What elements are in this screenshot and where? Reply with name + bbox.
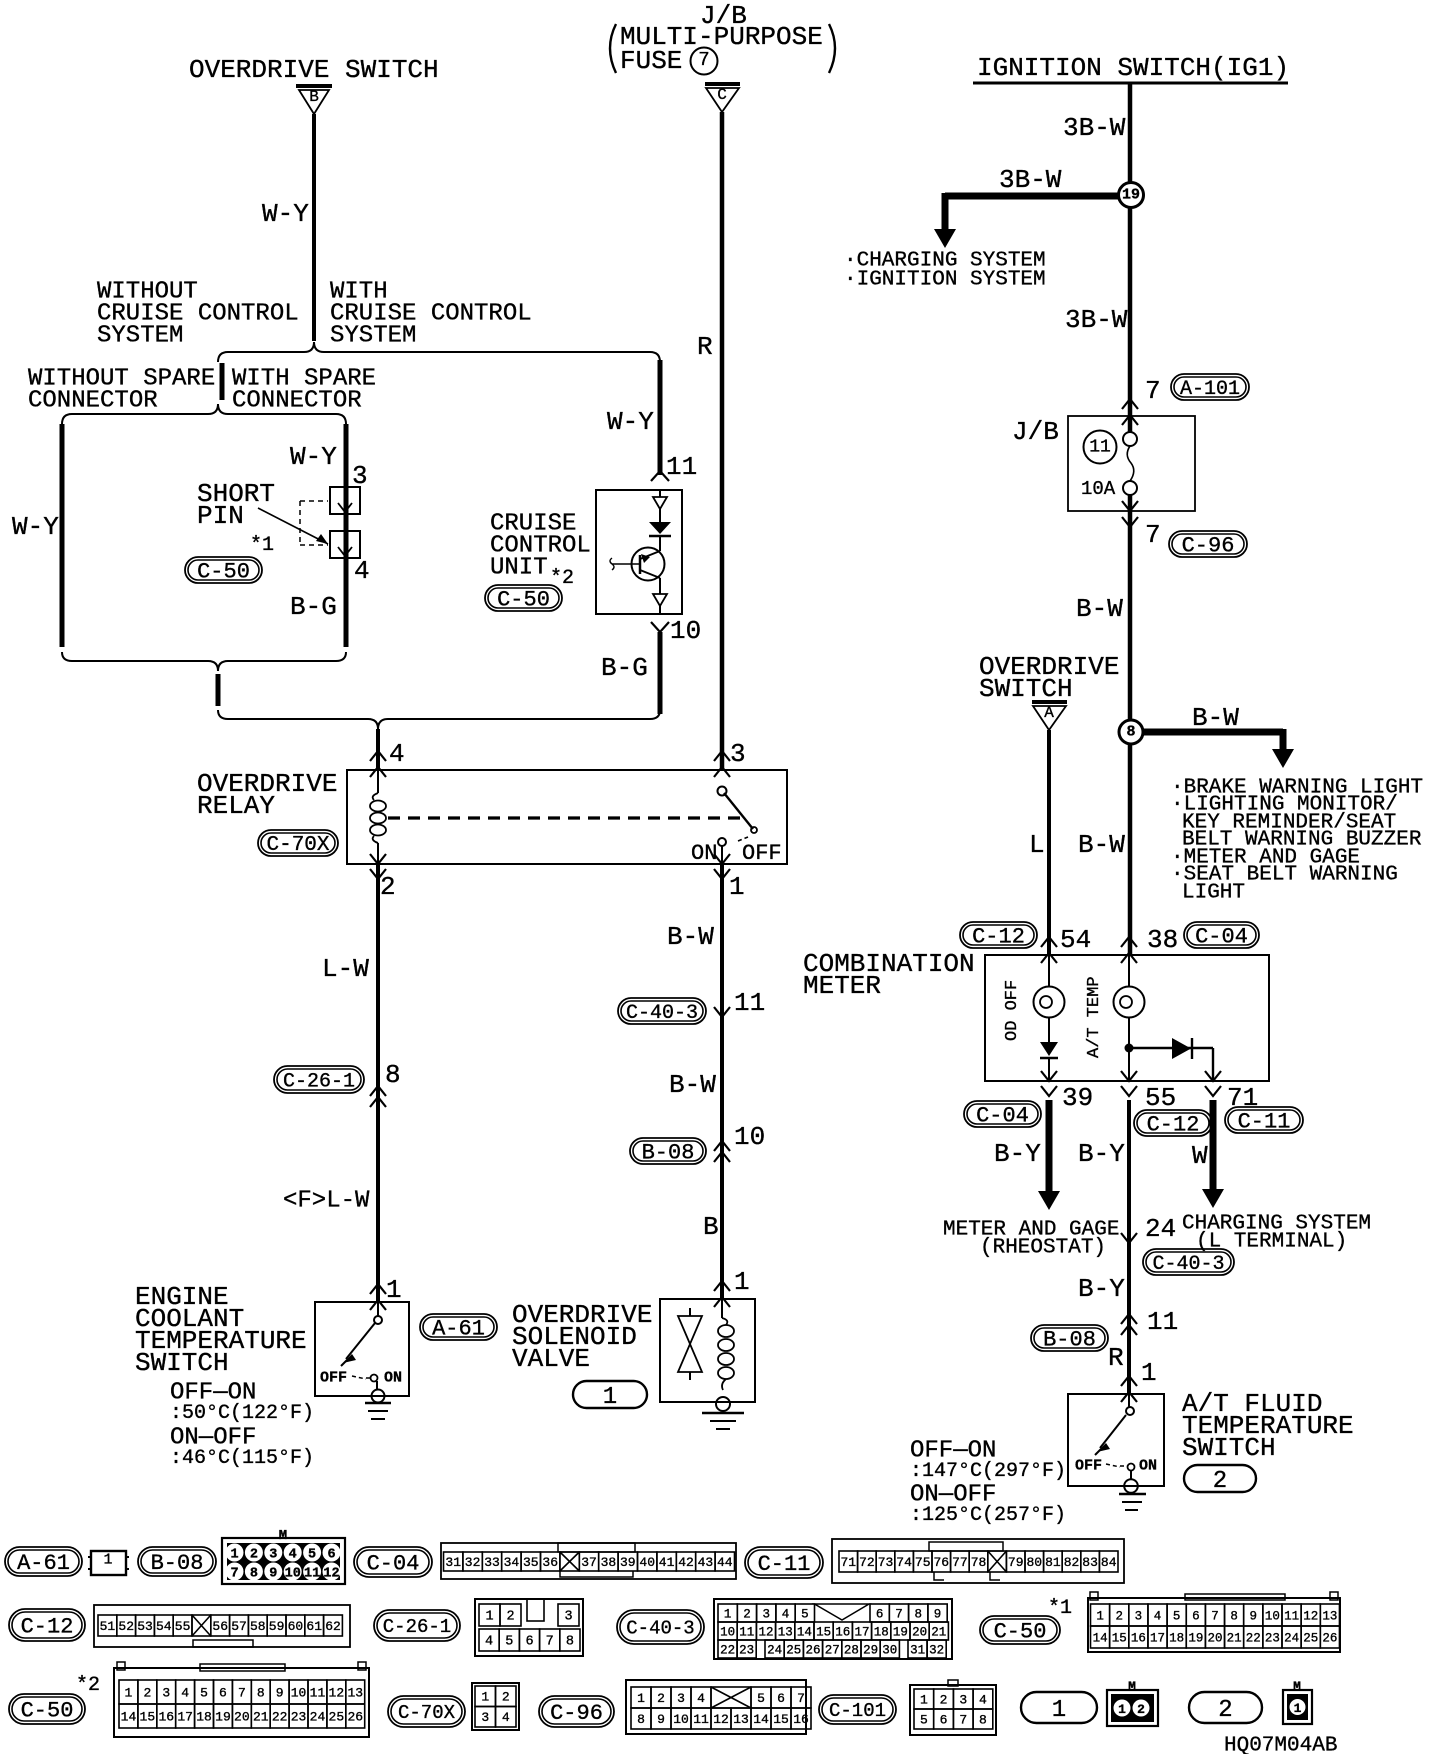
svg-text:SWITCH: SWITCH bbox=[979, 674, 1073, 704]
A/T switch dashed arc bbox=[1106, 1464, 1120, 1467]
svg-text:OVERDRIVE SWITCH: OVERDRIVE SWITCH bbox=[189, 55, 439, 85]
coolant switch ON contact bbox=[371, 1375, 378, 1382]
relay coil bbox=[377, 770, 379, 793]
svg-text:W: W bbox=[1192, 1141, 1208, 1171]
connector label A-61 capsule (table) bbox=[5, 1547, 82, 1576]
svg-text:1: 1 bbox=[729, 872, 745, 902]
svg-text:1: 1 bbox=[724, 1607, 732, 1621]
svg-text::125°C(257°F): :125°C(257°F) bbox=[910, 1504, 1066, 1527]
wire W-Y from overdrive switch connector B bbox=[312, 114, 316, 341]
svg-text:2: 2 bbox=[1218, 1697, 1232, 1724]
cruise unit internal wire top bbox=[659, 490, 661, 497]
coolant switch wire to ground bbox=[376, 1381, 378, 1390]
svg-text:33: 33 bbox=[484, 1555, 500, 1570]
svg-text:8: 8 bbox=[250, 1566, 258, 1581]
connector pinout component 2 (1 pin) bbox=[1283, 1690, 1312, 1724]
svg-text:20: 20 bbox=[234, 1710, 250, 1725]
svg-text:4: 4 bbox=[485, 1635, 493, 1650]
dashed outline of short pin bbox=[300, 500, 328, 502]
short pin terminal box pin 3 bbox=[330, 487, 360, 514]
terminal chevrons at relay pin 1 bbox=[714, 854, 730, 864]
svg-text:8: 8 bbox=[257, 1686, 265, 1701]
svg-text:OD OFF: OD OFF bbox=[1003, 980, 1022, 1041]
svg-text:1: 1 bbox=[481, 1690, 489, 1705]
svg-text:J/B: J/B bbox=[1012, 417, 1059, 447]
connector label C-11 capsule (pin 71) bbox=[1225, 1107, 1303, 1133]
svg-text:2: 2 bbox=[380, 872, 396, 902]
svg-text:B: B bbox=[309, 88, 319, 106]
svg-text:14: 14 bbox=[753, 1712, 769, 1727]
svg-text:74: 74 bbox=[896, 1555, 912, 1570]
svg-text:C-70X: C-70X bbox=[398, 1702, 456, 1724]
svg-text:1: 1 bbox=[125, 1686, 133, 1701]
connector label A-101 capsule bbox=[1171, 374, 1249, 400]
svg-text:32: 32 bbox=[929, 1643, 944, 1657]
connector pinout A-61 (1 pin) bbox=[91, 1551, 126, 1575]
connector pinout C-70X (4 pin) bbox=[472, 1683, 519, 1730]
svg-text:36: 36 bbox=[542, 1555, 558, 1570]
svg-text:1: 1 bbox=[1052, 1697, 1066, 1724]
terminal symbol at cruise pin 11 bbox=[651, 471, 669, 481]
svg-text:3B-W: 3B-W bbox=[1065, 305, 1128, 335]
svg-text:SWITCH: SWITCH bbox=[1182, 1433, 1276, 1463]
svg-text:B: B bbox=[703, 1212, 719, 1242]
svg-text:24: 24 bbox=[767, 1643, 782, 1657]
connector B triangle (overdrive switch) bbox=[296, 84, 332, 88]
svg-text:72: 72 bbox=[859, 1555, 875, 1570]
svg-text:<F>L-W: <F>L-W bbox=[283, 1188, 370, 1215]
svg-text:L: L bbox=[1029, 830, 1045, 860]
svg-text:C-04: C-04 bbox=[976, 1104, 1029, 1129]
svg-text:11: 11 bbox=[734, 988, 765, 1018]
svg-text:7: 7 bbox=[1145, 376, 1161, 406]
svg-text:37: 37 bbox=[581, 1555, 597, 1570]
svg-text:12: 12 bbox=[323, 1566, 339, 1581]
svg-text:2: 2 bbox=[1115, 1609, 1123, 1623]
svg-text:16: 16 bbox=[793, 1712, 809, 1727]
svg-text:2: 2 bbox=[657, 1691, 665, 1706]
connector label C-96 capsule (table) bbox=[539, 1696, 614, 1727]
wire L from overdrive switch connector A bbox=[1047, 730, 1051, 955]
connector pinout C-12 (pins 51-62) bbox=[94, 1605, 350, 1647]
connector pinout C-50 *2 (26 pin) bbox=[114, 1668, 369, 1737]
svg-text:3B-W: 3B-W bbox=[999, 165, 1062, 195]
svg-text::147°C(297°F): :147°C(297°F) bbox=[910, 1460, 1066, 1483]
brace joining cruise-control branches to relay pin 4 bbox=[218, 710, 660, 729]
wire down to meter pin 71 bbox=[1212, 1048, 1214, 1081]
svg-text:B-08: B-08 bbox=[642, 1141, 695, 1166]
overdrive solenoid valve box bbox=[660, 1299, 755, 1402]
branch wire 3B-W to charging/ignition system bbox=[945, 193, 1119, 200]
short pin terminal box pin 4 bbox=[330, 531, 360, 558]
svg-text::50°C(122°F): :50°C(122°F) bbox=[170, 1402, 314, 1425]
svg-text:C-70X: C-70X bbox=[266, 834, 329, 857]
connector pinout C-96 (16 pin) bbox=[626, 1680, 806, 1734]
svg-text:75: 75 bbox=[915, 1555, 931, 1570]
relay dashed actuation line bbox=[388, 816, 748, 819]
svg-text:54: 54 bbox=[156, 1619, 172, 1634]
svg-text:54: 54 bbox=[1060, 925, 1091, 955]
svg-text:34: 34 bbox=[504, 1555, 520, 1570]
svg-text:4: 4 bbox=[389, 739, 405, 769]
svg-text:RELAY: RELAY bbox=[197, 791, 275, 821]
svg-text:B-08: B-08 bbox=[1043, 1328, 1096, 1353]
svg-text:8: 8 bbox=[1126, 723, 1135, 740]
diode symbol (open triangle) top inside cruise unit bbox=[653, 497, 667, 509]
svg-text:·IGNITION SYSTEM: ·IGNITION SYSTEM bbox=[844, 268, 1046, 291]
svg-text:7: 7 bbox=[698, 49, 709, 71]
svg-text:4: 4 bbox=[1154, 1609, 1162, 1623]
svg-text:77: 77 bbox=[952, 1555, 968, 1570]
terminal symbol at cruise pin 10 bbox=[651, 622, 669, 632]
A/T switch wire to ground bbox=[1130, 1470, 1132, 1480]
svg-text:6: 6 bbox=[940, 1713, 948, 1728]
svg-text:43: 43 bbox=[698, 1555, 714, 1570]
svg-text:78: 78 bbox=[971, 1555, 987, 1570]
svg-text:55: 55 bbox=[1145, 1083, 1176, 1113]
svg-text:7: 7 bbox=[546, 1635, 554, 1650]
svg-text:1: 1 bbox=[1096, 1609, 1104, 1623]
svg-text:5: 5 bbox=[757, 1691, 765, 1706]
svg-text:4: 4 bbox=[354, 556, 370, 586]
transistor Q inside cruise control unit bbox=[632, 548, 665, 581]
svg-text:7: 7 bbox=[797, 1691, 805, 1706]
svg-text:7: 7 bbox=[1145, 520, 1161, 550]
node 8 (splice) bbox=[1119, 720, 1143, 744]
svg-text:3: 3 bbox=[730, 739, 746, 769]
svg-text:8: 8 bbox=[566, 1635, 574, 1650]
svg-text:SYSTEM: SYSTEM bbox=[97, 323, 183, 350]
svg-text:A/T TEMP: A/T TEMP bbox=[1085, 976, 1104, 1058]
svg-text:22: 22 bbox=[272, 1710, 288, 1725]
svg-text:3B-W: 3B-W bbox=[1063, 113, 1126, 143]
connector label C-101 capsule (table) bbox=[819, 1695, 896, 1724]
wire from junction to diode bbox=[1129, 1047, 1213, 1049]
svg-text:6: 6 bbox=[777, 1691, 785, 1706]
ground symbol (engine coolant temperature switch) bbox=[372, 1390, 385, 1403]
svg-text:B-W: B-W bbox=[1078, 830, 1125, 860]
svg-text:2: 2 bbox=[143, 1686, 151, 1701]
svg-text:C-26-1: C-26-1 bbox=[383, 1616, 451, 1638]
svg-text:3: 3 bbox=[269, 1547, 277, 1562]
svg-text:C-26-1: C-26-1 bbox=[283, 1070, 355, 1093]
svg-text:6: 6 bbox=[219, 1686, 227, 1701]
svg-text:4: 4 bbox=[181, 1686, 189, 1701]
svg-text:SYSTEM: SYSTEM bbox=[330, 323, 416, 350]
svg-text:38: 38 bbox=[601, 1555, 617, 1570]
svg-text:C-11: C-11 bbox=[1238, 1110, 1291, 1135]
wire W-Y right leg (with spare connector) bbox=[344, 424, 349, 647]
cruise unit internal wire bottom bbox=[659, 578, 661, 594]
svg-text:A-61: A-61 bbox=[17, 1551, 70, 1576]
svg-text:11: 11 bbox=[1147, 1307, 1178, 1337]
ground symbol (A/T fluid temperature switch) bbox=[1124, 1479, 1138, 1493]
svg-text:8: 8 bbox=[979, 1713, 987, 1728]
svg-text:62: 62 bbox=[325, 1619, 341, 1634]
wire W-Y to cruise control unit bbox=[658, 360, 663, 475]
connector label C-12 capsule (pin 54) bbox=[960, 922, 1037, 948]
svg-text:59: 59 bbox=[269, 1619, 285, 1634]
fuse element in J/B bbox=[1129, 416, 1131, 432]
svg-text:OFF: OFF bbox=[1075, 1457, 1102, 1474]
svg-text:18: 18 bbox=[874, 1625, 889, 1639]
svg-text:C-40-3: C-40-3 bbox=[1152, 1253, 1224, 1276]
connector pinout C-11 (pins 71-84) bbox=[832, 1539, 1124, 1583]
terminal chevrons at coolant switch pin 1 bbox=[370, 1284, 386, 1294]
component oval label 2 (table) bbox=[1189, 1692, 1262, 1723]
A/T TEMP indicator lamp bbox=[1128, 955, 1130, 987]
svg-text:26: 26 bbox=[347, 1710, 363, 1725]
brace joining spare-connector branches bbox=[62, 652, 346, 671]
connector label C-70X capsule (table) bbox=[388, 1696, 465, 1727]
svg-text:8: 8 bbox=[1230, 1609, 1238, 1623]
svg-text:B-Y: B-Y bbox=[1078, 1139, 1125, 1169]
svg-text:1: 1 bbox=[734, 1267, 750, 1297]
svg-text:25: 25 bbox=[1303, 1631, 1318, 1645]
connector label C-04 capsule (table) bbox=[354, 1547, 432, 1577]
connector label C-26-1 capsule (table) bbox=[374, 1610, 460, 1641]
svg-text:24: 24 bbox=[310, 1710, 326, 1725]
inline connector chevrons B-08 bbox=[714, 1141, 730, 1151]
connector label C-40-3 capsule bbox=[618, 998, 706, 1024]
svg-text:4: 4 bbox=[697, 1691, 705, 1706]
component oval label 2 (A/T switch) bbox=[1184, 1465, 1256, 1492]
connector pinout C-26-1 (8 pin) bbox=[475, 1599, 583, 1656]
terminal chevrons at J/B input bbox=[1122, 399, 1138, 409]
A/T switch ON contact bbox=[1128, 1464, 1135, 1471]
svg-text:9: 9 bbox=[934, 1607, 942, 1621]
svg-text:60: 60 bbox=[288, 1619, 304, 1634]
svg-text:2: 2 bbox=[940, 1693, 948, 1708]
svg-text:*1: *1 bbox=[250, 534, 274, 557]
svg-text:B-G: B-G bbox=[290, 592, 337, 622]
svg-text:9: 9 bbox=[276, 1686, 284, 1701]
svg-text:ON: ON bbox=[384, 1369, 402, 1386]
svg-text:4: 4 bbox=[289, 1547, 297, 1562]
svg-text:21: 21 bbox=[1227, 1631, 1242, 1645]
svg-text:3: 3 bbox=[1135, 1609, 1143, 1623]
solenoid valve symbol (bowtie) bbox=[689, 1308, 691, 1316]
fuse number 7 circle bbox=[691, 48, 718, 75]
wire R from J/B fuse connector C bbox=[720, 112, 725, 770]
connector label C-04 capsule (pin 38) bbox=[1184, 922, 1259, 948]
svg-text:44: 44 bbox=[717, 1555, 733, 1570]
wire W-Y left leg (without spare connector) bbox=[60, 424, 65, 647]
svg-text:55: 55 bbox=[175, 1619, 191, 1634]
svg-text:11: 11 bbox=[739, 1625, 754, 1639]
svg-text:R: R bbox=[697, 332, 713, 362]
svg-text:METER: METER bbox=[803, 971, 881, 1001]
svg-text:11: 11 bbox=[1089, 437, 1111, 457]
wire from brace to relay pin 4 bbox=[376, 729, 380, 770]
svg-text:4: 4 bbox=[502, 1710, 510, 1725]
svg-text:11: 11 bbox=[304, 1566, 320, 1581]
svg-text:25: 25 bbox=[329, 1710, 345, 1725]
fuse number 11 circle (J/B) bbox=[1084, 431, 1117, 464]
svg-text:HQ07M04AB: HQ07M04AB bbox=[1224, 1734, 1337, 1754]
svg-text:19: 19 bbox=[215, 1710, 231, 1725]
svg-text:81: 81 bbox=[1045, 1555, 1061, 1570]
connector pinout B-08 (12 pin) bbox=[222, 1538, 345, 1584]
svg-text:13: 13 bbox=[778, 1625, 793, 1639]
connector label C-26-1 capsule bbox=[274, 1066, 364, 1093]
svg-text:19: 19 bbox=[1122, 186, 1140, 203]
svg-text:26: 26 bbox=[805, 1643, 820, 1657]
svg-text:B-W: B-W bbox=[667, 922, 714, 952]
svg-text:A: A bbox=[1044, 704, 1054, 722]
svg-text:10: 10 bbox=[670, 616, 701, 646]
svg-text:83: 83 bbox=[1082, 1555, 1098, 1570]
svg-text:9: 9 bbox=[269, 1566, 277, 1581]
label MULTI-PURPOSE FUSE 7 with parens bbox=[610, 24, 616, 73]
connector label B-08 capsule (table) bbox=[138, 1547, 216, 1576]
connector label A-61 capsule bbox=[420, 1314, 497, 1340]
svg-text:B-G: B-G bbox=[601, 653, 648, 683]
svg-text:6: 6 bbox=[525, 1635, 533, 1650]
svg-text:7: 7 bbox=[238, 1686, 246, 1701]
svg-text:10: 10 bbox=[720, 1625, 735, 1639]
svg-text:6: 6 bbox=[327, 1547, 335, 1562]
connector pinout C-50 *1 (26 pin) bbox=[1088, 1598, 1340, 1652]
svg-text:3: 3 bbox=[677, 1691, 685, 1706]
svg-text:3: 3 bbox=[352, 461, 368, 491]
bar separator without/with spare connector bbox=[220, 363, 225, 400]
svg-text::46°C(115°F): :46°C(115°F) bbox=[170, 1447, 314, 1470]
relay switch contact (ON/OFF) bbox=[718, 787, 727, 796]
svg-text:1: 1 bbox=[603, 1384, 617, 1411]
svg-text:6: 6 bbox=[876, 1607, 884, 1621]
svg-text:40: 40 bbox=[639, 1555, 655, 1570]
junction block J/B box bbox=[1068, 416, 1195, 511]
terminal chevrons at solenoid valve pin 1 bbox=[714, 1281, 730, 1291]
svg-text:2: 2 bbox=[1213, 1468, 1227, 1495]
wire stub joining spare branches bbox=[216, 674, 221, 706]
svg-text:10: 10 bbox=[291, 1686, 307, 1701]
svg-text:2: 2 bbox=[250, 1547, 258, 1562]
wire B-W from J/B fuse to combination meter bbox=[1128, 494, 1133, 955]
svg-text:7: 7 bbox=[230, 1566, 238, 1581]
wire L-W from relay pin 2 bbox=[376, 864, 380, 1302]
svg-text:8: 8 bbox=[637, 1712, 645, 1727]
svg-text:B-Y: B-Y bbox=[1078, 1274, 1125, 1304]
svg-text:B-08: B-08 bbox=[151, 1551, 204, 1576]
svg-text:10A: 10A bbox=[1081, 478, 1116, 500]
svg-text:R: R bbox=[1108, 1343, 1124, 1373]
svg-text:31: 31 bbox=[910, 1643, 925, 1657]
svg-text:32: 32 bbox=[465, 1555, 481, 1570]
terminal chevrons at relay pin 3 bbox=[714, 751, 730, 761]
svg-text:C-50: C-50 bbox=[497, 588, 550, 613]
svg-text:13: 13 bbox=[733, 1712, 749, 1727]
inline connector chevron C-40-3 bbox=[714, 1007, 730, 1017]
svg-text:19: 19 bbox=[893, 1625, 908, 1639]
svg-text:18: 18 bbox=[196, 1710, 212, 1725]
svg-text:C-12: C-12 bbox=[21, 1615, 74, 1640]
svg-text:7: 7 bbox=[959, 1713, 967, 1728]
svg-text:2: 2 bbox=[1137, 1702, 1145, 1717]
svg-text:39: 39 bbox=[620, 1555, 636, 1570]
svg-text:B-W: B-W bbox=[1192, 703, 1239, 733]
svg-text:1: 1 bbox=[103, 1551, 112, 1568]
svg-text:11: 11 bbox=[310, 1686, 326, 1701]
connector C triangle (J/B fuse) bbox=[705, 82, 740, 86]
svg-text:6: 6 bbox=[1192, 1609, 1200, 1623]
arrow from SHORT PIN label to pins bbox=[258, 508, 328, 544]
svg-text:23: 23 bbox=[291, 1710, 307, 1725]
inline connector chevrons B-08 right bbox=[1121, 1314, 1137, 1324]
node 19 (splice) bbox=[1119, 183, 1144, 208]
svg-text:W-Y: W-Y bbox=[607, 407, 654, 437]
svg-text:53: 53 bbox=[137, 1619, 153, 1634]
svg-text:5: 5 bbox=[1173, 1609, 1181, 1623]
overdrive relay box (C-70X) bbox=[347, 770, 787, 864]
svg-text:3: 3 bbox=[162, 1686, 170, 1701]
svg-text:C-12: C-12 bbox=[1147, 1113, 1200, 1138]
svg-text:7: 7 bbox=[895, 1607, 903, 1621]
svg-text:2: 2 bbox=[506, 1610, 514, 1625]
svg-text:M: M bbox=[279, 1528, 287, 1544]
svg-text:26: 26 bbox=[1322, 1631, 1337, 1645]
svg-text:5: 5 bbox=[308, 1547, 316, 1562]
svg-text:20: 20 bbox=[912, 1625, 927, 1639]
svg-text:15: 15 bbox=[816, 1625, 831, 1639]
diode to charging system (in meter) bbox=[1172, 1038, 1191, 1059]
brace splitting without/with cruise control branches bbox=[218, 342, 660, 362]
svg-text:M: M bbox=[1128, 1679, 1136, 1694]
svg-text:L-W: L-W bbox=[322, 954, 369, 984]
svg-text:C: C bbox=[717, 86, 727, 104]
svg-text:20: 20 bbox=[1207, 1631, 1222, 1645]
svg-text:80: 80 bbox=[1026, 1555, 1042, 1570]
svg-text:12: 12 bbox=[713, 1712, 729, 1727]
svg-text:3: 3 bbox=[564, 1610, 572, 1625]
svg-text:23: 23 bbox=[1265, 1631, 1280, 1645]
svg-text:73: 73 bbox=[878, 1555, 894, 1570]
svg-text:11: 11 bbox=[693, 1712, 709, 1727]
svg-text:C-50: C-50 bbox=[21, 1699, 74, 1724]
svg-text:11: 11 bbox=[1284, 1609, 1299, 1623]
svg-text:A-61: A-61 bbox=[432, 1317, 485, 1342]
svg-text:35: 35 bbox=[523, 1555, 539, 1570]
connector label C-11 capsule (table) bbox=[745, 1547, 823, 1578]
component oval label 1 (table) bbox=[1021, 1692, 1097, 1723]
wire B-G from cruise control unit bbox=[658, 632, 663, 714]
svg-text:19: 19 bbox=[1188, 1631, 1203, 1645]
connector label C-12 capsule (table) bbox=[9, 1609, 85, 1641]
svg-text:C-40-3: C-40-3 bbox=[626, 1002, 698, 1025]
svg-text:C-50: C-50 bbox=[197, 560, 250, 585]
svg-text:C-50: C-50 bbox=[994, 1620, 1047, 1645]
LED symbol on OD OFF circuit bbox=[1040, 1042, 1058, 1056]
solenoid coil bbox=[721, 1299, 723, 1318]
svg-text:10: 10 bbox=[1265, 1609, 1280, 1623]
svg-text:12: 12 bbox=[329, 1686, 345, 1701]
connector pinout C-40-3 (32 pin) bbox=[714, 1599, 952, 1659]
junction node in meter bbox=[1125, 1044, 1134, 1053]
svg-text:C-04: C-04 bbox=[367, 1552, 420, 1577]
svg-text:21: 21 bbox=[253, 1710, 269, 1725]
svg-text:9: 9 bbox=[657, 1712, 665, 1727]
svg-text:13: 13 bbox=[347, 1686, 363, 1701]
svg-text:57: 57 bbox=[231, 1619, 247, 1634]
terminal chevrons at A/T switch pin 1 bbox=[1121, 1376, 1137, 1386]
connector pinout C-101 (8 pin) bbox=[910, 1685, 996, 1735]
arrow wire to charging system L terminal bbox=[1210, 1100, 1217, 1189]
connector label C-96 capsule bbox=[1169, 531, 1247, 557]
svg-text:1: 1 bbox=[1294, 1701, 1302, 1716]
OD OFF indicator lamp bbox=[1048, 955, 1050, 987]
terminal chevrons at meter pins 39/55/71 bbox=[1041, 1071, 1057, 1081]
